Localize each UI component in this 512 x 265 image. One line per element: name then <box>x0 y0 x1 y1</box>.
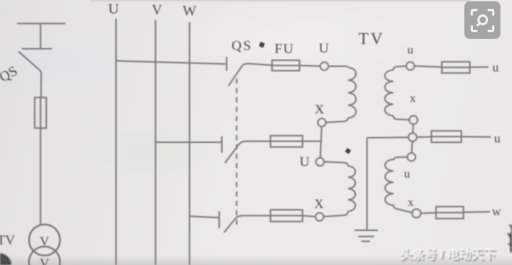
label V (inside lower TV circle) <box>40 256 50 265</box>
disconnector QS (left) blade <box>19 52 39 70</box>
fuse fu (secondary w) <box>436 207 464 219</box>
wire <box>326 118 348 123</box>
wire <box>470 66 489 68</box>
view-large-image icon (top right) <box>464 1 500 39</box>
svg-text:u: u <box>404 167 410 181</box>
svg-text:X: X <box>315 102 325 117</box>
terminal x1 (secondary) <box>409 116 417 124</box>
QS gang linkage (dashed) <box>236 79 238 229</box>
left circuit: lower bar <box>22 48 52 50</box>
wire (ground drop) <box>366 138 368 230</box>
scan artifact (top-right edge) <box>509 3 511 13</box>
svg-text:X: X <box>314 196 324 211</box>
QS contact 2 <box>221 136 223 153</box>
label QS (left) <box>0 64 20 86</box>
wire tap V phase <box>156 141 222 143</box>
wire <box>417 136 432 138</box>
label w (output phase w) <box>492 205 501 219</box>
svg-text:U: U <box>299 155 309 170</box>
watermark 头条号/电动天下 <box>400 247 497 263</box>
label U (terminal U2) <box>299 155 309 170</box>
mark (dark blob after QS) <box>259 42 265 48</box>
fuse fu (secondary u) <box>442 62 470 73</box>
wire <box>461 136 491 138</box>
fuse FU3 <box>271 210 303 222</box>
label u (terminal u1) <box>407 43 413 57</box>
svg-text:w: w <box>492 205 501 219</box>
svg-text:U: U <box>108 2 119 18</box>
fuse FU2 <box>271 136 303 147</box>
QS contact 1 <box>226 57 228 71</box>
label u (output phase v) <box>494 132 501 146</box>
label X (terminal X1) <box>315 102 325 117</box>
mark (dark blob near U2) <box>345 148 351 154</box>
svg-text:QS: QS <box>232 39 253 54</box>
QS blade 3 <box>224 217 237 232</box>
QS blade 1 <box>228 65 243 87</box>
wire (secondary u output) <box>414 66 441 67</box>
wire <box>394 157 408 160</box>
svg-text:U: U <box>319 42 329 57</box>
terminal v junction (secondary middle) <box>408 133 416 141</box>
label u (output phase u) <box>492 61 499 75</box>
terminal X2 <box>315 213 323 221</box>
logo mark (dark, right edge) <box>507 225 512 254</box>
primary winding 1 <box>348 68 356 118</box>
label W (bus) <box>183 4 197 20</box>
label V (inside TV circle) <box>40 234 50 249</box>
wire node (X1 to U2 junction) <box>320 127 321 158</box>
wire <box>464 211 491 214</box>
terminal x2 (secondary) <box>412 209 421 218</box>
svg-text:FU: FU <box>275 42 295 57</box>
terminal U2 <box>316 158 324 166</box>
primary winding 2 <box>348 166 355 211</box>
svg-text:x: x <box>408 195 414 209</box>
label TV (left) <box>0 233 15 248</box>
label U (terminal U1) <box>319 42 329 57</box>
svg-text:x: x <box>410 91 416 105</box>
secondary winding 1 <box>385 70 393 116</box>
busbar V <box>155 20 157 265</box>
label x (terminal x2 sec) <box>408 195 414 209</box>
wire <box>237 216 271 218</box>
wire <box>303 216 316 217</box>
secondary winding 2 <box>385 160 393 206</box>
left circuit: top bar <box>17 23 66 25</box>
wire <box>39 69 42 98</box>
svg-text:V: V <box>40 256 50 265</box>
terminal u1 (secondary) <box>406 62 414 70</box>
label TV (main) <box>359 29 385 48</box>
dark smudge (bottom-left corner) <box>0 253 11 265</box>
wire <box>40 128 42 225</box>
wire tap U phase <box>116 61 226 64</box>
busbar W <box>189 22 191 265</box>
wire <box>324 162 348 166</box>
busbar U <box>115 19 117 265</box>
fuse FU1 <box>272 60 300 70</box>
QS contact 3 <box>218 211 220 228</box>
svg-text:TV: TV <box>359 29 385 48</box>
wire <box>328 66 348 67</box>
svg-text:V: V <box>152 3 163 19</box>
wire <box>393 116 409 120</box>
fuse fu (secondary v) <box>431 131 461 142</box>
label x (terminal x1 sec) <box>410 91 416 105</box>
label X (terminal X2) <box>314 196 324 211</box>
terminal X1 <box>318 118 326 126</box>
label u (terminal u2 sec) <box>404 167 410 181</box>
wire <box>40 24 42 50</box>
wire <box>324 211 348 216</box>
svg-text:u: u <box>407 43 413 57</box>
wire <box>300 65 321 68</box>
wire <box>243 64 272 66</box>
wire (junction to u2) <box>411 141 414 153</box>
svg-text:u: u <box>494 132 501 146</box>
wire <box>412 124 415 133</box>
svg-text:V: V <box>40 234 50 249</box>
wire <box>394 205 413 213</box>
voltage transformer TV (left, two circles) <box>29 225 60 265</box>
wire <box>421 212 436 215</box>
svg-text:W: W <box>183 4 197 20</box>
QS blade 2 <box>225 145 239 163</box>
terminal U1 <box>320 62 328 70</box>
label U (bus) <box>108 2 119 18</box>
fuse (left feeder) <box>35 98 47 129</box>
ground <box>355 230 379 241</box>
wire (to ground drop) <box>367 136 408 138</box>
wire tap W phase <box>190 216 219 217</box>
label V (bus) <box>152 3 163 19</box>
svg-text:u: u <box>492 61 499 75</box>
svg-text:TV: TV <box>0 233 15 248</box>
wire <box>239 141 271 145</box>
wire <box>393 66 406 70</box>
svg-text:头条号 / 电动天下: 头条号 / 电动天下 <box>400 247 495 262</box>
label FU <box>275 42 295 57</box>
label QS (gang switch) <box>232 39 253 54</box>
terminal u2 (secondary) <box>407 153 415 161</box>
wire <box>303 140 322 142</box>
